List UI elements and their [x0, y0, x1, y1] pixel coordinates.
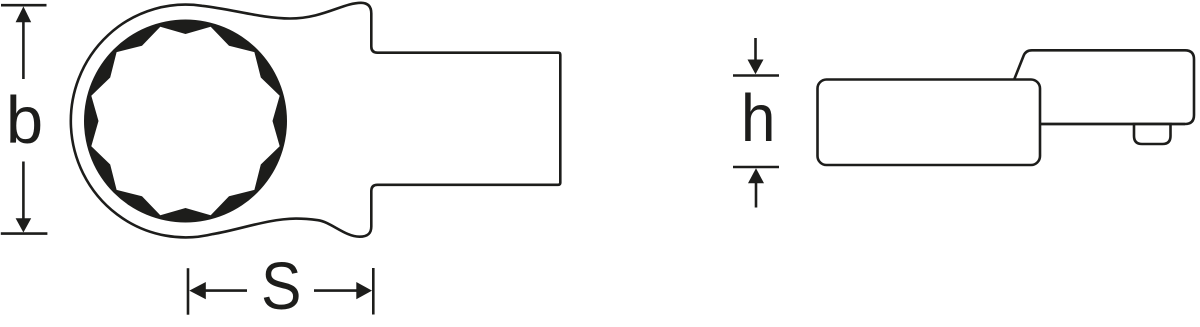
svg-text:S: S	[261, 248, 301, 323]
svg-text:h: h	[741, 80, 776, 156]
svg-text:b: b	[6, 83, 43, 158]
